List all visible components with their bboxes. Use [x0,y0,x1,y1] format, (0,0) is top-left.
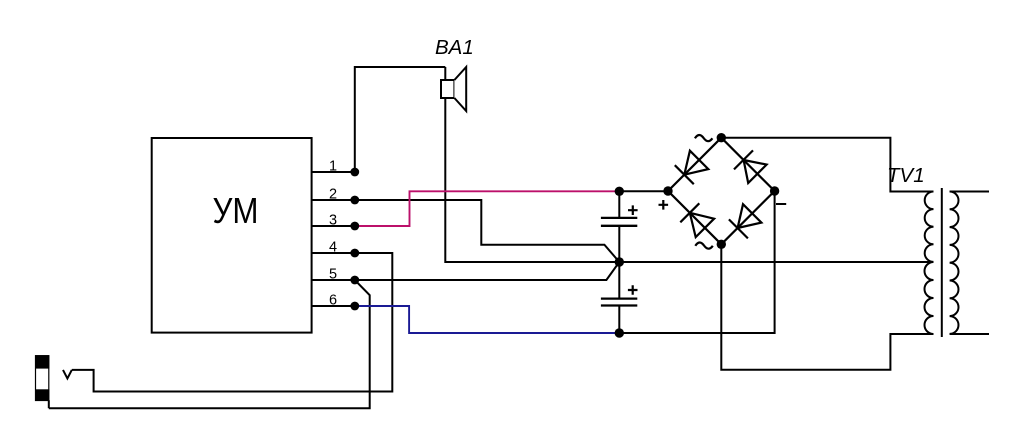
wire capacitor C1 node to bridge plus node [619,190,668,192]
wire pin1 up and right to speaker [355,67,446,172]
svg-text:1: 1 [329,159,337,175]
wire pin5 to capacitor midpoint node [355,262,620,280]
wire pin6 blue to negative capacitor node [355,306,620,333]
wire pin3 pink to positive capacitor node [355,191,620,226]
svg-text:TV1: TV1 [887,164,925,187]
transformer secondary winding [950,192,959,334]
transformer primary winding lower half [925,262,934,334]
bridge diode D2 bottom-left [680,203,714,237]
jack tip spring contact V [63,370,72,379]
wire pin2 to capacitor midpoint node [355,200,620,262]
wire bridge bottom node to transformer primary bottom [721,244,933,369]
transformer core [941,188,943,337]
pin 6 stub [312,305,355,307]
bridge plus sign [659,200,669,210]
pin 6 junction dot [350,302,359,311]
amplifier block UM box [152,138,312,333]
pin 4 junction dot [350,249,359,258]
pin 3 junction dot [350,222,359,231]
pin 3 stub [312,225,355,227]
node capacitor midpoint junction dot [615,257,624,266]
capacitor C2 top lead [618,262,620,299]
capacitor C1 plates [601,217,637,219]
transformer secondary bottom lead [950,333,989,335]
bridge node top junction dot [717,133,726,142]
bridge node left junction dot [663,186,672,195]
pin 2 junction dot [350,196,359,205]
speaker BA1 cone [454,67,466,111]
bridge AC tilde bottom [695,242,713,248]
svg-text:6: 6 [329,293,337,309]
capacitor C1 plus sign [628,205,638,215]
pin 5 junction dot [350,276,359,285]
jack plug sleeve segment black [35,389,49,401]
capacitor C2 plates [601,297,637,299]
svg-text:4: 4 [329,240,337,256]
bridge node right junction dot [770,186,779,195]
capacitor C1 top lead [618,191,620,218]
svg-text:УМ: УМ [213,190,259,231]
wire pin4 down to jack tip contact [72,253,393,392]
bridge AC tilde top [695,135,713,141]
pin 1 junction dot [350,168,359,177]
jack plug sleeve lead [48,400,50,408]
bridge rectifier diamond [668,138,775,245]
node capacitor minus junction dot [615,328,624,337]
bridge diode D3 top-right [734,150,767,183]
svg-text:BA1: BA1 [435,36,474,59]
bridge node bottom junction dot [717,240,726,249]
pin 5 stub [312,279,355,281]
bridge minus sign [776,203,786,205]
transformer primary winding upper half [925,192,934,262]
transformer secondary top lead [950,191,989,193]
svg-text:2: 2 [329,187,337,203]
pin 1 stub [312,171,355,173]
speaker BA1 driver box [441,80,454,98]
pin 4 stub [312,252,355,254]
svg-text:5: 5 [329,267,337,283]
wire negative capacitor node to bridge minus node [619,191,774,333]
pin 2 stub [312,199,355,201]
svg-text:3: 3 [329,213,337,229]
wire pin5 down to jack sleeve [49,280,370,408]
jack plug tip segment black [35,355,49,368]
node capacitor plus junction dot [615,187,624,196]
wire bridge top node to transformer primary top [721,138,933,192]
wire capacitor midpoint to transformer center tap [619,261,933,263]
bridge diode D1 top-left [675,151,709,185]
jack plug body outline [36,356,49,401]
capacitor C2 bottom lead [618,306,620,334]
capacitor C1 bottom lead [618,226,620,262]
wire speaker down to capacitor midpoint node [445,67,619,262]
bridge diode D4 bottom-right [729,204,762,238]
capacitor C2 plus sign [628,285,638,295]
